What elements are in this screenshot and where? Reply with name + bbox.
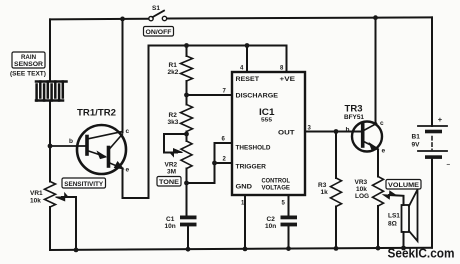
wire VR2 bottom to C1 xyxy=(186,182,188,216)
label box ON/OFF xyxy=(144,27,174,37)
svg-text:S1: S1 xyxy=(152,5,160,12)
transistor TR3 internals xyxy=(363,124,379,151)
svg-text:SENSITIVITY: SENSITIVITY xyxy=(64,181,103,188)
svg-text:7: 7 xyxy=(223,89,227,95)
wire TR3 collector column to top rail xyxy=(375,18,377,123)
potentiometer VR3 xyxy=(373,177,397,207)
svg-text:5: 5 xyxy=(282,201,286,207)
svg-text:b: b xyxy=(69,138,73,145)
svg-text:SeekIC.com: SeekIC.com xyxy=(388,247,455,261)
resistor R2 xyxy=(181,105,193,132)
wire VR1 wiper to bottom rail xyxy=(62,197,76,250)
svg-text:R3: R3 xyxy=(318,182,327,189)
svg-text:3M: 3M xyxy=(167,169,176,176)
svg-text:BFY51: BFY51 xyxy=(344,115,365,121)
wire left rail sensor-to-base xyxy=(49,101,51,146)
wire R2 to VR2 xyxy=(186,132,188,142)
svg-text:RESET: RESET xyxy=(236,76,260,83)
svg-text:RAIN: RAIN xyxy=(21,54,37,61)
label box SENSITIVITY xyxy=(62,178,106,188)
svg-text:10k: 10k xyxy=(30,198,41,205)
potentiometer VR1 xyxy=(45,182,69,208)
svg-text:R2: R2 xyxy=(169,112,178,119)
svg-text:–: – xyxy=(447,161,451,168)
svg-text:10n: 10n xyxy=(165,223,176,230)
svg-text:10n: 10n xyxy=(265,223,276,230)
svg-text:b: b xyxy=(346,127,350,134)
wire TR3 emitter to VR3 xyxy=(377,150,379,177)
label box TONE xyxy=(157,177,181,187)
wire pin1 stub to bottom rail xyxy=(244,195,246,249)
svg-text:4: 4 xyxy=(240,66,244,72)
label box VOLUME xyxy=(386,180,421,190)
svg-text:9V: 9V xyxy=(412,142,421,149)
svg-text:TONE: TONE xyxy=(159,179,179,186)
potentiometer VR2 xyxy=(170,141,192,183)
svg-text:3k3: 3k3 xyxy=(168,119,179,126)
svg-text:SENSOR: SENSOR xyxy=(14,61,44,68)
svg-text:VR2: VR2 xyxy=(165,162,178,169)
svg-text:e: e xyxy=(126,167,130,174)
svg-text:B1: B1 xyxy=(412,134,421,141)
transistor TR1/TR2 Darlington circle xyxy=(77,125,126,174)
svg-text:2: 2 xyxy=(223,157,227,163)
wire left rail VR1-to-bottom xyxy=(49,207,51,250)
wire left rail base-to-VR1 xyxy=(49,146,51,182)
label IC1 texts xyxy=(236,76,296,192)
wire left rail upper (to sensor) xyxy=(49,19,51,81)
svg-text:8Ω: 8Ω xyxy=(388,221,397,228)
svg-text:VR1: VR1 xyxy=(30,190,43,197)
wire right rail lower (battery to bottom) xyxy=(431,159,433,248)
wire R3 column from base wire xyxy=(335,132,337,179)
svg-text:1k: 1k xyxy=(321,189,329,196)
svg-text:e: e xyxy=(382,148,386,155)
battery B1 xyxy=(418,126,447,159)
wire C2 bottom xyxy=(288,227,290,249)
svg-text:TR3: TR3 xyxy=(345,104,363,114)
wire top rail right segment xyxy=(167,17,432,18)
svg-text:OUT: OUT xyxy=(278,130,295,137)
speaker LS1 xyxy=(402,190,418,242)
svg-text:TRIGGER: TRIGGER xyxy=(236,164,267,171)
svg-text:C2: C2 xyxy=(267,216,276,223)
svg-text:THESHOLD: THESHOLD xyxy=(236,145,271,152)
wire C1 bottom xyxy=(187,227,189,250)
wire right rail upper (to battery) xyxy=(431,17,433,126)
transistor TR3 circle xyxy=(352,122,382,152)
capacitor C1 xyxy=(180,216,197,227)
svg-text:VR3: VR3 xyxy=(355,179,368,186)
label rain sensor box xyxy=(10,52,46,78)
svg-text:+: + xyxy=(438,115,443,124)
svg-text:10k: 10k xyxy=(356,186,367,193)
capacitor C2 xyxy=(281,216,298,227)
svg-text:(SEE TEXT): (SEE TEXT) xyxy=(10,71,46,78)
wire TR1/TR2 collector column to top rail xyxy=(122,19,124,132)
wire R1-R2 junction and pin7 wire xyxy=(187,81,233,105)
svg-text:GND: GND xyxy=(236,184,253,191)
wire pin5 stub to C2 xyxy=(288,195,290,216)
svg-text:ON/OFF: ON/OFF xyxy=(146,29,172,36)
svg-text:c: c xyxy=(126,128,130,135)
svg-text:CONTROL: CONTROL xyxy=(262,178,291,185)
wire second (+VE) rail xyxy=(149,45,287,47)
wire top rail left segment xyxy=(50,18,148,21)
wire pin4 stub xyxy=(246,46,248,73)
wire TR1/TR2 emitter down, right, up to +VE rail xyxy=(123,46,149,199)
svg-text:C1: C1 xyxy=(166,216,175,223)
rain sensor electrodes xyxy=(36,82,67,101)
wire R3 bottom xyxy=(335,207,337,249)
wire R1 top connect xyxy=(186,46,188,57)
svg-text:+VE: +VE xyxy=(280,76,296,83)
svg-text:IC1: IC1 xyxy=(259,107,275,117)
transistor TR1/TR2 internals xyxy=(50,132,123,169)
svg-text:DISCHARGE: DISCHARGE xyxy=(236,93,279,100)
wire VR2 wiper (rheostat link) xyxy=(164,134,187,153)
svg-text:6: 6 xyxy=(222,137,226,143)
wire speaker bottom xyxy=(403,232,405,248)
svg-text:LOG: LOG xyxy=(355,193,369,200)
wire pin8 stub xyxy=(286,46,288,73)
svg-text:8: 8 xyxy=(280,66,284,72)
svg-text:c: c xyxy=(380,120,384,127)
svg-text:R1: R1 xyxy=(169,62,178,69)
svg-text:TR1/TR2: TR1/TR2 xyxy=(77,108,116,118)
wire pins 6-2 link to VR2 bottom node xyxy=(187,143,233,183)
wire VR3 wiper to speaker xyxy=(389,195,404,205)
wire pin3 OUT to TR3 base xyxy=(305,131,361,133)
svg-text:VOLUME: VOLUME xyxy=(388,182,419,189)
wire bottom rail xyxy=(50,248,432,250)
IC IC1 (555 timer) body xyxy=(232,72,305,195)
svg-text:VOLTAGE: VOLTAGE xyxy=(262,185,291,192)
wire VR3 bottom xyxy=(377,206,379,248)
svg-text:LS1: LS1 xyxy=(388,213,400,220)
switch S1 xyxy=(149,11,167,21)
resistor R1 xyxy=(181,56,193,81)
svg-text:2k2: 2k2 xyxy=(168,69,179,76)
svg-text:555: 555 xyxy=(261,118,272,124)
resistor R3 xyxy=(331,178,342,207)
